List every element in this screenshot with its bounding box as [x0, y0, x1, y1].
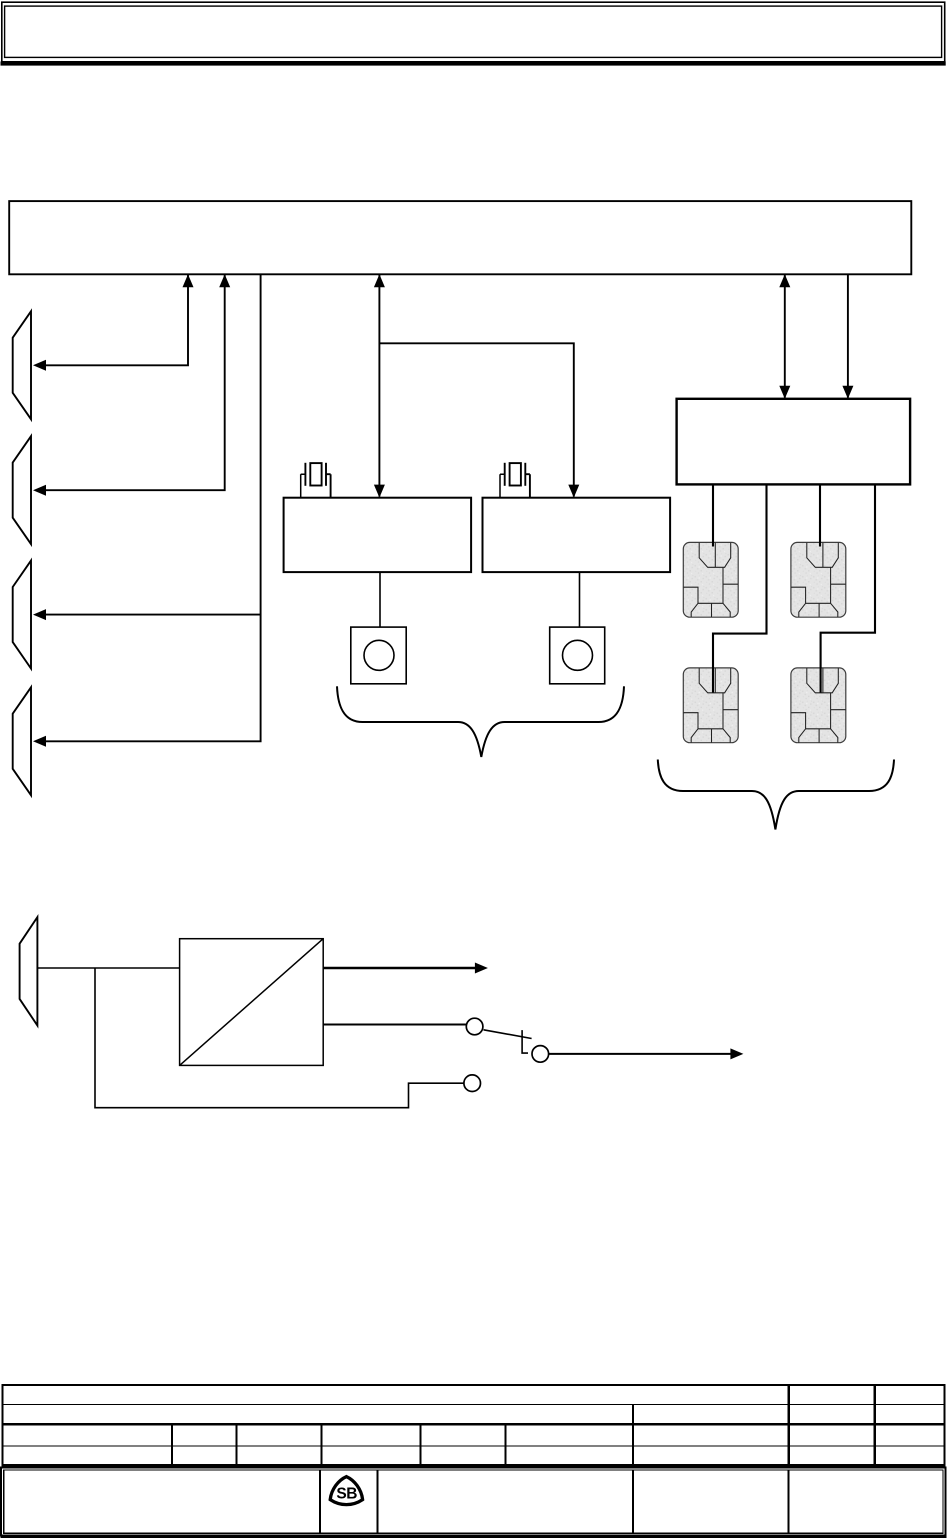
wire U1 to SIM block (left)	[779, 274, 790, 399]
svg-text:SB: SB	[336, 1485, 357, 1502]
brace audio group	[337, 686, 624, 757]
wire U1 to audio block A	[374, 274, 385, 497]
wire U1 to SP1	[33, 274, 194, 371]
audio block A	[284, 498, 472, 572]
SIM interface block	[677, 399, 911, 485]
switch SW1 lever	[484, 1030, 532, 1039]
SIM card SIM4	[791, 668, 846, 743]
wire U1 to SP3 and SP4	[33, 274, 261, 747]
buzzer BZ2	[550, 627, 605, 684]
switch SW1 stop bracket	[522, 1030, 528, 1053]
title block table	[3, 1385, 945, 1465]
header banner outer box with shadow	[1, 2, 946, 65]
wire converter output 1	[323, 963, 488, 974]
transducer SP1	[13, 311, 31, 419]
SIM card SIM2	[791, 542, 846, 617]
title block lower box	[1, 1468, 947, 1538]
wire SIM block to SIM2	[819, 484, 821, 546]
SIM card SIM1	[683, 542, 738, 617]
transducer SP2	[13, 436, 31, 544]
wire U1 to SIM block (right)	[842, 274, 853, 399]
wire SP5 to converter	[37, 967, 179, 969]
wire audio A to buzzer BZ1	[379, 572, 381, 627]
logo SB emblem	[330, 1477, 362, 1505]
transducer SP3	[13, 561, 31, 669]
wire switch output	[549, 1048, 744, 1059]
wire SIM block to SIM4	[821, 484, 875, 692]
wire branch to audio block B	[379, 343, 579, 497]
SIM card SIM3	[683, 668, 738, 743]
brace SIM group	[658, 760, 894, 830]
crystal X1	[301, 463, 331, 498]
main controller block U1	[9, 201, 911, 274]
switch SW1 contact a	[466, 1018, 483, 1035]
transducer SP5 (power input)	[20, 917, 38, 1025]
audio block B	[483, 498, 671, 572]
switch SW1 contact b	[532, 1046, 549, 1063]
wire battery return	[95, 968, 464, 1108]
wire audio B to buzzer BZ2	[579, 572, 581, 627]
switch SW1 contact c	[464, 1075, 481, 1092]
crystal X2	[500, 463, 530, 498]
converter U2	[180, 939, 324, 1066]
wire SIM block to SIM3	[713, 484, 767, 692]
buzzer BZ1	[351, 627, 406, 684]
transducer SP4	[13, 687, 31, 795]
wire U1 to SP2	[33, 274, 230, 496]
wire SIM block to SIM1	[712, 484, 714, 546]
wire converter output 2	[323, 1024, 466, 1026]
